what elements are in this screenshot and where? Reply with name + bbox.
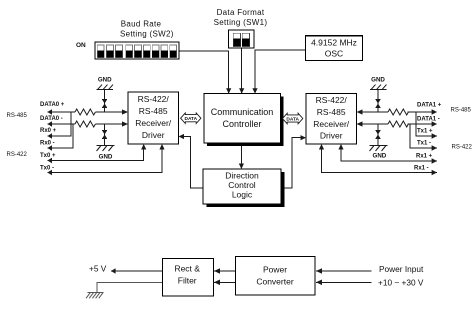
wire Rx1- (319, 144, 437, 175)
svg-text:Tx1 -: Tx1 - (417, 141, 431, 147)
wire Rx0- (47, 124, 73, 151)
wire Direction Control Logic to right Receiver/Driver (284, 135, 306, 188)
svg-text:Receiver/: Receiver/ (313, 119, 350, 129)
block Communication Controller (204, 94, 284, 147)
svg-text:Driver: Driver (142, 130, 165, 140)
svg-text:Setting (SW1): Setting (SW1) (214, 18, 268, 27)
label +10 ~ +30 V (378, 277, 424, 287)
TVS D3 (376, 100, 381, 108)
label Rx0- (40, 141, 55, 147)
label Rx1+ (416, 154, 433, 160)
wire SW1 to Communication Controller (239, 48, 244, 94)
wire Tx0+ (47, 144, 146, 163)
svg-text:Data Format: Data Format (217, 8, 265, 17)
svg-text:Power Input: Power Input (379, 264, 424, 274)
label Tx0- (40, 166, 54, 172)
svg-text:DATA1 +: DATA1 + (417, 103, 442, 109)
svg-text:Logic: Logic (232, 190, 253, 200)
svg-text:RS-485: RS-485 (317, 107, 346, 117)
label DATA1+ (417, 103, 442, 109)
svg-text:Tx0 +: Tx0 + (40, 153, 56, 159)
svg-text:RS-422/: RS-422/ (316, 95, 348, 105)
wire SW2 to Communication Controller (179, 51, 231, 94)
svg-text:Tx0 -: Tx0 - (40, 166, 54, 172)
label Tx1+ (417, 129, 433, 135)
svg-text:RS-422: RS-422 (452, 144, 473, 150)
label RS-485 right (451, 108, 472, 114)
ground GND top left (97, 77, 114, 90)
svg-text:Rx1 -: Rx1 - (414, 166, 429, 172)
svg-text:RS-422/: RS-422/ (138, 94, 170, 104)
label ON (76, 42, 86, 49)
block Rect & Filter (163, 259, 214, 297)
wire Power Converter to Rect & Filter line 1 (214, 268, 235, 274)
svg-text:Controller: Controller (222, 119, 261, 129)
svg-text:+10 ~ +30 V: +10 ~ +30 V (378, 277, 424, 287)
wire Rx1+ (338, 144, 437, 164)
wire DATA0+ (47, 109, 128, 115)
resistor R4 (388, 121, 408, 127)
wire Power Input line 2 (316, 280, 372, 286)
block Power Converter (236, 257, 316, 296)
label Data Format Setting (SW1) (214, 8, 268, 27)
label RS-485 left (7, 113, 28, 119)
wire Tx0- (47, 144, 164, 175)
svg-text:+5 V: +5 V (89, 264, 107, 274)
wire DATA1- (357, 121, 438, 127)
wire left protection top (104, 90, 106, 112)
label DATA0- (40, 116, 63, 122)
svg-text:Rx0 +: Rx0 + (40, 128, 57, 134)
svg-text:Driver: Driver (320, 131, 343, 141)
wire OSC to Communication Controller (252, 50, 305, 94)
svg-text:RS-485: RS-485 (139, 106, 168, 116)
resistor R2 (75, 121, 95, 127)
svg-text:Rect &: Rect & (174, 264, 200, 274)
label Tx0+ (40, 153, 56, 159)
wire Rx0+ (47, 112, 70, 139)
svg-text:Filter: Filter (178, 276, 197, 286)
wire DATA0- (47, 121, 128, 127)
label DATA1- (417, 117, 440, 123)
TVS D1 (102, 100, 107, 108)
block RS-422/RS-485 Receiver/Driver right (306, 94, 357, 145)
dip switch SW1 (229, 30, 255, 48)
TVS D4 (376, 131, 381, 139)
svg-text:Converter: Converter (256, 277, 293, 287)
label Tx1- (417, 141, 431, 147)
label Rx0+ (40, 128, 57, 134)
svg-text:RS-485: RS-485 (451, 108, 472, 114)
wire +5V output (111, 268, 162, 274)
svg-text:Direction: Direction (225, 170, 259, 180)
resistor R1 (75, 109, 95, 115)
svg-text:DATA: DATA (184, 116, 197, 122)
svg-text:ON: ON (76, 42, 86, 49)
wire right protection top (377, 90, 379, 112)
ground GND bottom left (97, 146, 115, 161)
label Power Input (379, 264, 424, 274)
ground power earth (86, 292, 104, 298)
wire Power Input line 1 (316, 268, 372, 274)
label Baud Rate Setting (SW2) (120, 19, 174, 38)
TVS D2 (102, 131, 107, 139)
resistor R3 (388, 109, 408, 115)
oscillator OSC 4.9152 MHz (306, 36, 363, 61)
label RS-422 left (7, 152, 28, 158)
block RS-422/RS-485 Receiver/Driver left (128, 92, 179, 144)
left side field wiring (47, 77, 164, 176)
wire Tx1+ (416, 112, 437, 139)
svg-text:DATA: DATA (286, 116, 299, 122)
svg-text:RS-485: RS-485 (7, 113, 28, 119)
wire DATA1+ (357, 109, 438, 115)
ground GND top right (370, 77, 387, 90)
svg-text:Communication: Communication (211, 107, 274, 117)
svg-text:GND: GND (99, 154, 113, 161)
label RS-422 right (452, 144, 473, 150)
svg-text:GND: GND (373, 153, 387, 160)
svg-text:RS-422: RS-422 (7, 152, 28, 158)
svg-text:GND: GND (98, 77, 112, 84)
svg-text:Tx1 +: Tx1 + (417, 129, 433, 135)
ground GND bottom right (370, 146, 388, 160)
svg-text:Setting (SW2): Setting (SW2) (120, 29, 174, 38)
svg-text:Receiver/: Receiver/ (135, 118, 172, 128)
data bus symbol DATA left (181, 113, 201, 124)
wire power ground (97, 282, 162, 292)
data bus symbol DATA right (283, 113, 303, 124)
svg-text:4.9152 MHz: 4.9152 MHz (311, 37, 357, 47)
svg-text:DATA1 -: DATA1 - (417, 117, 440, 123)
svg-text:GND: GND (371, 77, 385, 84)
wire left protection bottom (104, 124, 106, 146)
svg-text:Rx0 -: Rx0 - (40, 141, 55, 147)
wire right protection bottom (377, 124, 379, 146)
block Direction Control Logic (203, 169, 285, 207)
svg-text:DATA0 +: DATA0 + (40, 102, 65, 108)
svg-text:Control: Control (228, 180, 256, 190)
svg-text:Power: Power (263, 265, 287, 275)
svg-text:Baud Rate: Baud Rate (121, 19, 162, 28)
label Rx1- (414, 166, 429, 172)
label +5 V (89, 264, 107, 274)
wire Direction Control Logic to left Receiver/Driver (179, 134, 204, 188)
right side field wiring (319, 77, 437, 176)
dip switch SW2 (95, 42, 179, 59)
svg-text:OSC: OSC (325, 49, 343, 59)
svg-text:DATA0 -: DATA0 - (40, 116, 63, 122)
wire Tx1- (410, 124, 437, 151)
wire Communication Controller to Direction Control Logic (239, 143, 244, 169)
wire Power Converter to Rect & Filter line 2 (214, 280, 235, 286)
label DATA0+ (40, 102, 65, 108)
svg-text:Rx1 +: Rx1 + (416, 154, 433, 160)
